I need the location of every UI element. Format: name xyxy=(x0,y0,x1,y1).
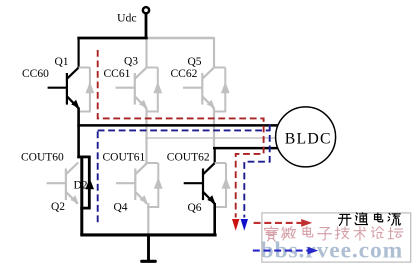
Udc terminal xyxy=(143,7,149,13)
svg-text:COUT60: COUT60 xyxy=(21,151,64,163)
svg-text:D2: D2 xyxy=(74,179,88,191)
diode D-Q4 xyxy=(147,163,158,208)
svg-text:BLDC: BLDC xyxy=(285,130,332,147)
diode D-Q1 xyxy=(79,68,90,113)
diode D-Q3 xyxy=(147,68,158,113)
svg-text:Q2: Q2 xyxy=(51,201,65,213)
wire phase-A leg upper xyxy=(77,108,80,159)
svg-text:Q1: Q1 xyxy=(55,56,69,68)
wire Q4 emitter to rail xyxy=(147,203,149,235)
diode D-Q6 xyxy=(215,163,226,208)
svg-text:COUT62: COUT62 xyxy=(167,151,210,163)
legend red dashed arrow xyxy=(254,222,302,224)
phase line B to motor (gray thin) xyxy=(145,137,275,139)
red arrow down xyxy=(232,219,239,231)
blue arrow down xyxy=(241,219,248,231)
legend box xyxy=(262,213,411,262)
Udc stem wire xyxy=(145,14,148,40)
diode D2 branch vertical xyxy=(88,156,91,209)
label 开通电流 (hand-drawn glyphs) xyxy=(339,214,351,225)
gray DC+ rail segment xyxy=(147,37,214,39)
ground rail xyxy=(80,233,216,236)
wire phase-B leg upper xyxy=(145,108,147,164)
BLDC motor xyxy=(276,107,336,167)
diode D2 arrow xyxy=(85,178,94,189)
D2 branch: top jog wire xyxy=(77,155,90,158)
svg-text:COUT61: COUT61 xyxy=(103,151,146,163)
diode D-Q5 xyxy=(214,68,225,113)
svg-text:bbs.rvee.com: bbs.rvee.com xyxy=(261,238,404,264)
watermark site text xyxy=(265,226,278,241)
transistor Q1 xyxy=(48,37,80,108)
DC+ rail (black) xyxy=(77,37,147,40)
wire phase-C leg upper xyxy=(213,108,215,149)
transistor Q6 xyxy=(184,147,216,204)
svg-text:Q6: Q6 xyxy=(188,202,202,214)
transistor Q4 xyxy=(116,162,148,204)
transistor Q3 xyxy=(116,37,148,108)
svg-text:Q3: Q3 xyxy=(124,56,138,68)
svg-text:CC62: CC62 xyxy=(171,68,198,80)
phase line A to motor xyxy=(77,124,277,127)
ground symbol bar xyxy=(140,260,157,263)
svg-text:Q5: Q5 xyxy=(188,56,202,68)
phase line C to motor xyxy=(213,147,278,150)
D2 branch: bottom jog wire xyxy=(80,207,90,210)
svg-text:Udc: Udc xyxy=(117,11,137,25)
legend blue dashed arrow xyxy=(253,250,309,252)
svg-text:CC60: CC60 xyxy=(22,68,49,80)
blue freewheel path: left vertical xyxy=(97,131,99,225)
svg-text:CC61: CC61 xyxy=(104,68,131,80)
blue freewheel path: main xyxy=(98,129,270,131)
red turn-on current path xyxy=(98,50,264,218)
Q2 main leg wire (bold) xyxy=(80,156,83,235)
transistor Q2 (gray body) xyxy=(47,163,79,204)
wire Q6 emitter to rail xyxy=(213,203,216,236)
ground stem xyxy=(147,236,150,261)
svg-text:Q4: Q4 xyxy=(114,201,128,213)
transistor Q5 xyxy=(183,37,215,108)
